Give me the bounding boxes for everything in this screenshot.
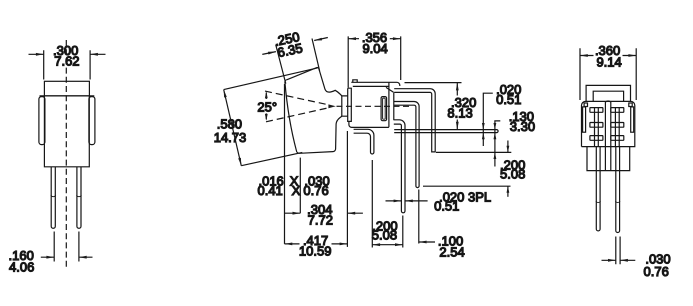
left terminal crossbar 2: [590, 123, 603, 128]
svg-text:4.06: 4.06: [9, 260, 34, 275]
dim .130 leader: [495, 121, 500, 167]
dim .356 dim line and arrows: [348, 38, 401, 40]
centerline (left view): [65, 40, 67, 268]
right terminal crossbar 1: [611, 108, 624, 113]
body inner top line: [353, 85, 389, 87]
angular dim upper arrow: [265, 93, 267, 100]
dim .250 right ext line: [312, 39, 320, 71]
svg-text:5.08: 5.08: [500, 167, 525, 182]
svg-text:7.62: 7.62: [54, 54, 79, 69]
dim .320 top ext line: [405, 82, 462, 84]
right pin (right view): [616, 147, 620, 233]
dim .250 left arrow: [262, 52, 276, 55]
terminal strip (horizontal, right): [394, 130, 498, 133]
dim .250 right arrow: [314, 38, 328, 41]
svg-text:14.73: 14.73: [214, 130, 247, 145]
terminal 1 (top, bends down): [394, 89, 435, 152]
dim .320 dim line: [456, 83, 458, 130]
dim .020 leader: [483, 93, 493, 146]
svg-text:5.08: 5.08: [372, 227, 397, 242]
rocker paddle outline: [285, 68, 342, 154]
shoulder line: [40, 95, 95, 97]
dim .417 dim line: [285, 243, 348, 245]
center channel lower: [605, 147, 610, 171]
left side tab: [39, 97, 45, 145]
dim .580 bottom ext line: [241, 152, 302, 165]
dim .020 3PL arrows at long terminal: [386, 200, 428, 202]
corner notch left: [584, 103, 587, 107]
svg-text:0.41: 0.41: [257, 183, 282, 198]
ext line terminal2 tip: [423, 185, 511, 187]
dim .030 ext lines: [616, 237, 620, 265]
svg-text:0.51: 0.51: [496, 92, 521, 107]
dim .300 ext lines: [44, 50, 90, 79]
dim .360 dim line and arrows: [580, 55, 636, 57]
dim .360 ext lines: [580, 48, 636, 100]
right terminal crossbar 3: [611, 136, 624, 141]
dashed centerline (center view): [337, 105, 412, 107]
ext line below terminal 4: [371, 160, 373, 248]
dim .160 arrows: [41, 256, 93, 258]
ext line terminal1 tip: [436, 151, 511, 153]
corner notch right: [629, 103, 632, 107]
svg-text:0.76: 0.76: [644, 264, 669, 279]
dim .580 dimension line with arrows: [224, 90, 242, 166]
body inner right line: [388, 82, 390, 127]
switch body (left view): [44, 96, 89, 167]
dim .200 (bottom) dim line: [372, 244, 403, 246]
terminal 2 (middle, bends down): [394, 102, 419, 188]
base (right view): [587, 147, 630, 171]
svg-text:25°: 25°: [257, 100, 277, 115]
ext line paddle top corner (vertical): [284, 84, 286, 244]
svg-text:X: X: [292, 183, 301, 198]
cap outer (right view): [586, 85, 630, 101]
ext line body front (vertical): [346, 131, 348, 247]
dim .250 left ext line: [276, 45, 286, 84]
switch cap (left view): [44, 81, 89, 96]
svg-text:0.76: 0.76: [303, 183, 328, 198]
bushing step rect: [342, 96, 348, 116]
dim .200 (right) arrows: [507, 141, 509, 153]
dim .300 arrows: [29, 53, 106, 55]
actuator slot inner: [383, 98, 386, 119]
body chamfer: [386, 87, 394, 92]
actuator slot outer: [381, 97, 387, 121]
left pin break mark: [51, 195, 56, 196]
dim .100 arrow: [419, 241, 435, 243]
svg-text:9.14: 9.14: [596, 54, 621, 69]
left terminal crossbar 3: [590, 136, 603, 141]
right pin break: [615, 201, 620, 202]
dim .250/6.35 (aligned, rotated): [273, 29, 304, 60]
body (right view): [582, 101, 635, 146]
25 deg lower dashed ray: [266, 108, 328, 122]
pivot arrowhead: [328, 104, 335, 108]
dim .030 arrows: [602, 259, 636, 261]
dim .356 ext lines: [348, 36, 401, 87]
ext line below terminal 3: [402, 216, 404, 248]
25 deg upper dashed ray: [265, 91, 328, 105]
body right edge: [393, 92, 395, 120]
svg-text:2.54: 2.54: [439, 244, 464, 259]
right terminal crossbar 2: [611, 123, 624, 128]
cap inner (right view): [593, 91, 623, 101]
bushing front plate: [348, 88, 352, 121]
terminal 4 (short, below body): [354, 129, 374, 154]
svg-text:0.51: 0.51: [434, 199, 459, 214]
ext line paddle bottom corner (vertical): [299, 158, 301, 214]
ext line below terminal 2: [418, 190, 420, 244]
right side strip: [631, 107, 634, 132]
right side tab: [89, 97, 95, 145]
center channel: [605, 101, 610, 147]
left pin break: [596, 201, 601, 202]
svg-text:8.13: 8.13: [447, 106, 472, 121]
left terminal bar: [595, 108, 599, 147]
dim .304 dim line: [285, 212, 363, 214]
switch body (center view) top tab: [353, 80, 357, 83]
left terminal crossbar 1: [590, 108, 603, 113]
svg-text:7.72: 7.72: [308, 213, 333, 228]
switch body (center view) outline: [351, 82, 400, 86]
dim .580 top ext line: [224, 68, 318, 90]
left pin (right view): [596, 147, 600, 231]
left pin: [51, 167, 55, 228]
right terminal bar: [615, 108, 619, 147]
body left edge and bottom: [349, 121, 389, 127]
svg-text:10.59: 10.59: [299, 244, 332, 259]
dim .160 ext lines: [54, 232, 79, 262]
svg-text:3.30: 3.30: [510, 119, 535, 134]
svg-text:9.04: 9.04: [362, 41, 387, 56]
angular dim lower arrow: [265, 113, 267, 119]
terminal 3 (bottom right, long): [394, 120, 405, 213]
right pin break mark: [76, 195, 81, 196]
right pin: [77, 167, 81, 228]
left side strip: [583, 107, 586, 132]
